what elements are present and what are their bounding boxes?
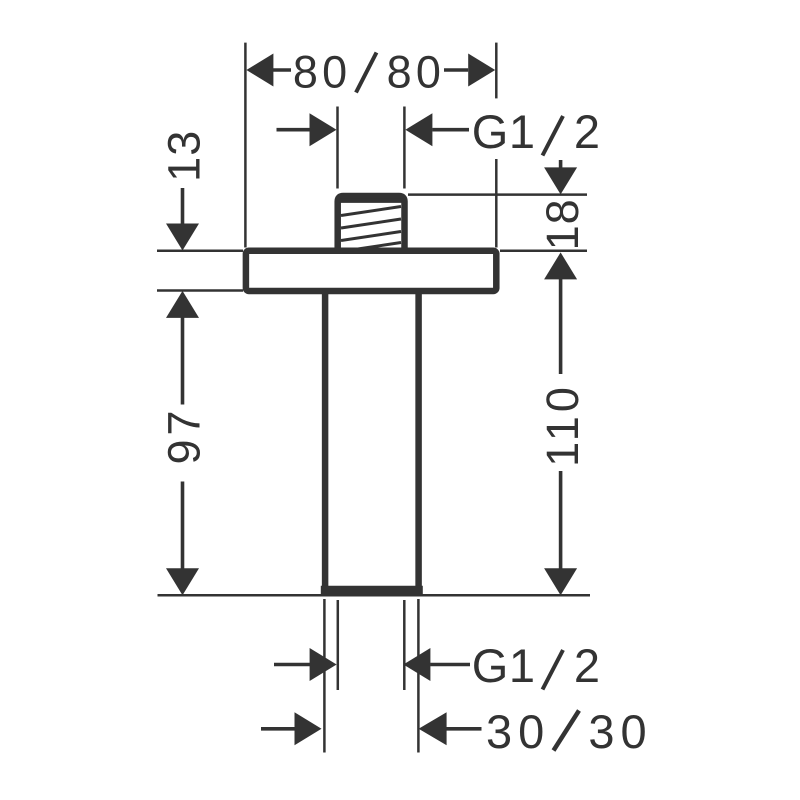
- reference line 18 top: [408, 193, 587, 196]
- arrowhead 30/30 pointing left: [419, 712, 447, 745]
- svg-text:1: 1: [509, 105, 535, 158]
- label 97: [159, 406, 210, 464]
- extension line 30/30 right: [417, 599, 420, 753]
- extension line G1/2 bottom left: [337, 600, 340, 690]
- dim line 97 upper stem: [181, 317, 185, 405]
- thread hatch line 1: [341, 207, 401, 216]
- label 80/80 slash: [356, 53, 377, 93]
- arrowhead 110 up: [544, 252, 577, 279]
- thread hatch line 2: [341, 219, 401, 228]
- extension line G1/2 top right: [403, 107, 406, 189]
- dim line G1/2 bottom left arrow shaft: [274, 663, 311, 667]
- svg-text:80: 80: [293, 47, 352, 98]
- svg-text:80: 80: [387, 47, 446, 98]
- reference line bottom 97/110: [158, 594, 591, 597]
- label 110: [537, 383, 588, 467]
- dim line 110 upper stem: [559, 279, 563, 375]
- extension line G1/2 top left: [336, 107, 339, 189]
- svg-text:2: 2: [574, 105, 600, 158]
- arrowhead G1/2 top pointing left: [405, 113, 432, 146]
- dim line G1/2 top right arrow shaft: [432, 128, 469, 132]
- pipe left edge: [322, 294, 329, 588]
- arrowhead 30/30 pointing right: [295, 712, 322, 745]
- label 30/30 slash: [554, 711, 580, 751]
- label G1/2 top slash: [543, 116, 564, 156]
- svg-text:18: 18: [537, 198, 588, 250]
- dim line G1/2 top left arrow shaft: [277, 128, 311, 132]
- dim line 30/30 left arrow shaft: [261, 727, 296, 731]
- arrowhead 18 down: [544, 167, 577, 194]
- dim line 110 lower stem: [559, 471, 563, 569]
- arrowhead 80/80 right: [468, 54, 495, 87]
- arrowhead 110 down: [544, 568, 577, 595]
- svg-text:1: 1: [509, 639, 535, 692]
- svg-text:G: G: [472, 639, 509, 692]
- label G1/2 bottom slash: [543, 650, 564, 690]
- dim line 30/30 right arrow shaft: [447, 727, 482, 731]
- extension line G1/2 bottom right: [403, 600, 406, 690]
- threaded stub outline: [338, 196, 405, 250]
- svg-text:110: 110: [537, 383, 588, 467]
- arrowhead 97 up: [166, 291, 199, 318]
- arrowhead G1/2 bottom pointing right: [310, 648, 337, 681]
- extension line 80/80 right upper: [495, 43, 498, 99]
- reference line 13 top: [157, 249, 243, 252]
- svg-text:G: G: [472, 105, 509, 158]
- flange plate outline: [246, 251, 496, 291]
- label 18: [537, 198, 588, 250]
- svg-text:13: 13: [159, 130, 210, 182]
- svg-text:30: 30: [588, 705, 652, 758]
- extension line 80/80 right lower: [495, 159, 498, 248]
- dim line 13 stem: [181, 188, 185, 225]
- arrowhead G1/2 top pointing right: [310, 113, 337, 146]
- arrowhead G1/2 bottom pointing left: [403, 648, 430, 681]
- extension line 80/80 left: [244, 43, 247, 248]
- extension line 30/30 left: [323, 599, 326, 753]
- reference line 18 bottom / 110 top: [500, 249, 587, 252]
- svg-text:2: 2: [574, 639, 600, 692]
- dim line 18 stem: [559, 160, 563, 169]
- dim line 80/80 right segment: [444, 68, 468, 72]
- dim line 80/80 left segment: [273, 68, 291, 72]
- label 13: [159, 130, 210, 182]
- thread hatch line 3: [341, 232, 401, 241]
- dim line 97 lower stem: [181, 482, 185, 570]
- dim line G1/2 bottom right arrow shaft: [430, 663, 470, 667]
- threaded stub top face line: [339, 199, 403, 203]
- pipe bottom end bar: [321, 586, 423, 597]
- reference line 13 bottom / 97 top: [157, 289, 243, 292]
- arrowhead 13 down: [166, 224, 199, 251]
- svg-text:97: 97: [159, 406, 210, 464]
- pipe right edge: [415, 294, 422, 588]
- arrowhead 80/80 left: [246, 54, 273, 87]
- thread hatch line 4 partial: [341, 243, 401, 252]
- svg-text:30: 30: [486, 705, 550, 758]
- arrowhead 97 down: [166, 568, 199, 595]
